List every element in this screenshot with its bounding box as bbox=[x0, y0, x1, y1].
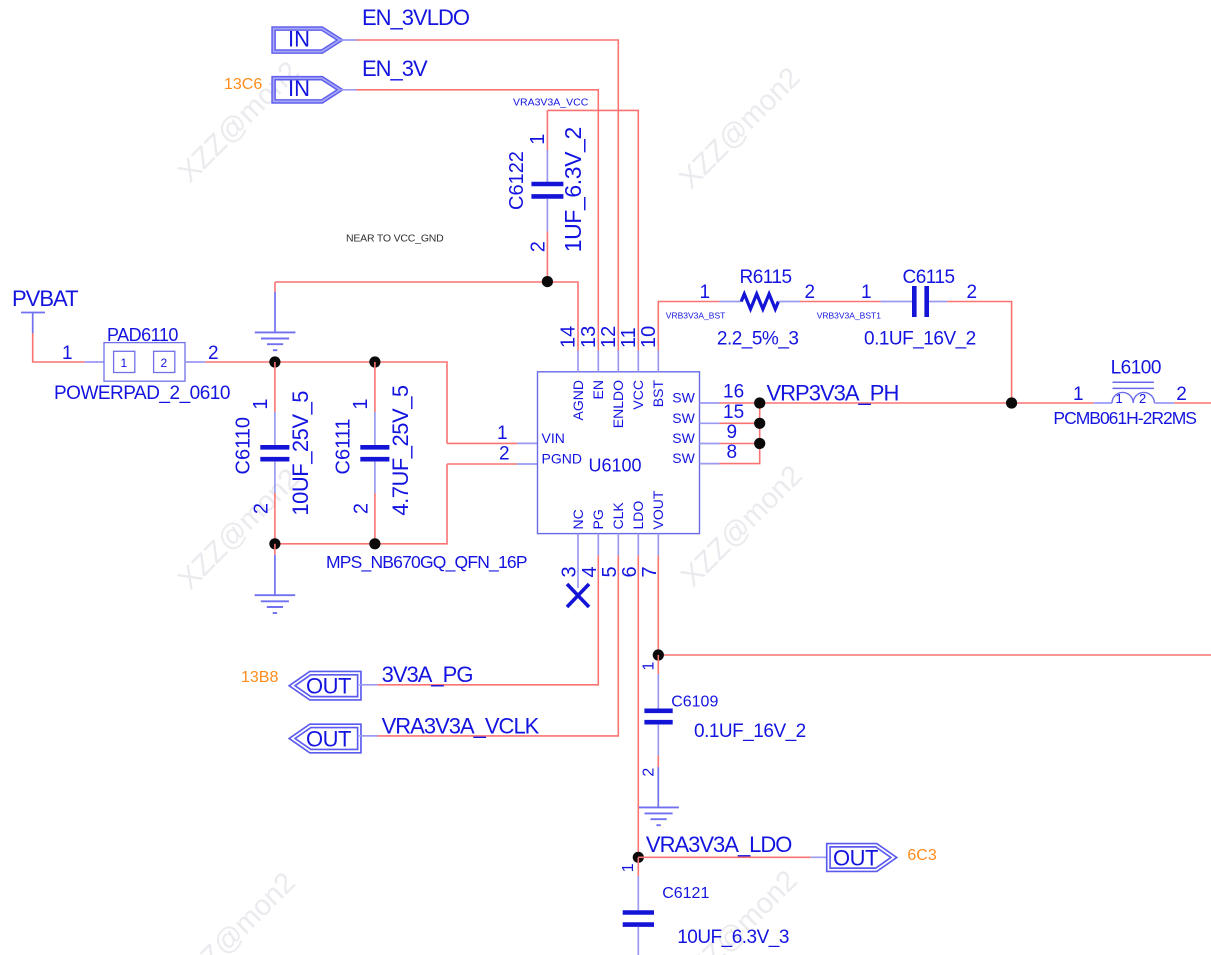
net label EN_3V bbox=[362, 56, 428, 81]
svg-text:6C3: 6C3 bbox=[907, 847, 936, 864]
wire SW15 bbox=[720, 422, 760, 424]
svg-text:VIN: VIN bbox=[542, 430, 565, 446]
value 4.7UF_25V_5 bbox=[388, 385, 413, 516]
svg-text:NC: NC bbox=[570, 509, 586, 529]
wire LDO stub flag bbox=[811, 856, 829, 858]
svg-text:PAD6110: PAD6110 bbox=[107, 325, 178, 345]
pin number 1 VIN bbox=[497, 423, 508, 444]
label MPS_NB670GQ_QFN_16P bbox=[326, 552, 527, 573]
pin name SW 9 bbox=[672, 430, 695, 446]
svg-text:MPS_NB670GQ_QFN_16P: MPS_NB670GQ_QFN_16P bbox=[326, 552, 527, 573]
sheet ref 13C6 bbox=[224, 76, 262, 93]
inductor L6100 bbox=[1094, 382, 1175, 403]
value 1UF_6.3V_2 bbox=[560, 127, 586, 252]
pin stub BST 10 bbox=[657, 351, 659, 372]
net label VRA3V3A_VCC bbox=[513, 97, 589, 109]
port IN flag EN_3VLDO bbox=[274, 27, 340, 52]
pin name VOUT bbox=[650, 490, 666, 529]
no-connect X NC bbox=[567, 584, 589, 607]
capacitor C6111 bbox=[360, 412, 389, 493]
capacitor C6110 bbox=[260, 412, 289, 493]
wire PVBAT to VIN bbox=[205, 362, 447, 443]
wire VRP3V3A_PH bbox=[720, 402, 1094, 404]
svg-text:SW: SW bbox=[672, 430, 695, 446]
pin number 2 C6111 bbox=[350, 503, 372, 514]
svg-text:SW: SW bbox=[672, 450, 695, 466]
svg-text:1: 1 bbox=[1073, 384, 1084, 405]
wire ground drop 2 bbox=[274, 544, 276, 595]
op-chip U6100 body bbox=[538, 372, 700, 534]
pin name AGND bbox=[570, 380, 586, 420]
wire PGND stub bbox=[447, 463, 538, 465]
pin number 4 bbox=[579, 566, 601, 577]
pin name PG bbox=[590, 509, 606, 529]
svg-text:SW: SW bbox=[672, 390, 695, 406]
svg-text:BST: BST bbox=[650, 380, 666, 408]
svg-text:11: 11 bbox=[618, 327, 640, 348]
sheet ref 6C3 bbox=[907, 847, 936, 864]
junction PVBAT-C6111 bbox=[369, 356, 380, 367]
wire BST to PH bbox=[947, 302, 1011, 404]
svg-text:VRB3V3A_BST: VRB3V3A_BST bbox=[666, 311, 726, 321]
pin stub ENLDO 12 bbox=[617, 351, 619, 372]
pin number 2 C6110 bbox=[250, 503, 272, 514]
wire PG net bbox=[377, 555, 598, 684]
label C6109 bbox=[671, 694, 718, 711]
junction SW9 bbox=[754, 438, 765, 449]
pad pin1 square number bbox=[121, 356, 128, 370]
svg-text:CLK: CLK bbox=[610, 502, 626, 530]
wire EN_3V stub bbox=[340, 89, 357, 91]
power tap PVBAT bbox=[21, 313, 45, 334]
svg-text:EN_3VLDO: EN_3VLDO bbox=[362, 5, 470, 30]
wire VOUT net bbox=[657, 555, 659, 655]
wire C6111 pin1 net bbox=[374, 362, 376, 412]
svg-text:2: 2 bbox=[528, 241, 550, 252]
svg-text:9: 9 bbox=[727, 422, 738, 443]
pin number 7 bbox=[639, 566, 661, 577]
pin 2 small L6100 bbox=[1139, 391, 1146, 406]
svg-text:EN_3V: EN_3V bbox=[362, 56, 428, 81]
value 0.1UF_16V_2 top bbox=[864, 329, 976, 350]
label U6100 bbox=[589, 456, 642, 476]
wire CLK net bbox=[377, 555, 618, 736]
junction LDO-C6121 bbox=[633, 852, 644, 863]
note NEAR TO VCC_GND bbox=[346, 233, 444, 245]
label C6122 bbox=[506, 151, 528, 210]
svg-text:ENLDO: ENLDO bbox=[610, 380, 626, 428]
pin stub CLK 5 bbox=[617, 534, 619, 556]
pin name BST bbox=[650, 380, 666, 408]
pin name SW 8 bbox=[672, 450, 695, 466]
pin name PGND bbox=[542, 451, 582, 467]
junction VOUT-C6109 bbox=[653, 649, 664, 660]
label PAD6110 bbox=[107, 325, 178, 345]
svg-text:VCC: VCC bbox=[630, 380, 646, 410]
net label 3V3A_PG bbox=[382, 662, 473, 687]
pin number 2 C6115 bbox=[967, 282, 978, 303]
pin stub AGND 14 bbox=[577, 351, 579, 372]
pin name LDO bbox=[630, 501, 646, 530]
pin number 15 bbox=[723, 402, 744, 423]
svg-text:2: 2 bbox=[161, 356, 168, 370]
svg-text:POWERPAD_2_0610: POWERPAD_2_0610 bbox=[54, 383, 230, 404]
svg-text:2: 2 bbox=[641, 768, 658, 777]
pin stub VOUT 7 bbox=[657, 534, 659, 556]
capacitor C6115 bbox=[881, 286, 948, 317]
svg-text:LDO: LDO bbox=[630, 501, 646, 530]
wire CLK stub bbox=[359, 735, 377, 737]
wire AGND net bbox=[275, 282, 578, 351]
pin name EN bbox=[590, 380, 606, 399]
pin number 2 C6109 bbox=[641, 768, 658, 777]
label R6115 bbox=[740, 267, 792, 288]
label C6110 bbox=[232, 417, 254, 474]
wire EN_3VLDO stub bbox=[340, 39, 357, 41]
svg-text:2: 2 bbox=[805, 282, 816, 303]
svg-text:13B8: 13B8 bbox=[241, 669, 278, 686]
pin number 10 bbox=[638, 326, 660, 348]
capacitor C6121 bbox=[623, 876, 654, 955]
wire PVBAT bbox=[33, 333, 85, 362]
wire LDO net bbox=[637, 555, 639, 857]
svg-text:2: 2 bbox=[208, 343, 219, 364]
svg-text:PCMB061H-2R2MS: PCMB061H-2R2MS bbox=[1053, 408, 1196, 428]
wire C6110 pin2 net bbox=[274, 493, 276, 544]
svg-text:2: 2 bbox=[499, 444, 510, 465]
svg-text:VRB3V3A_BST1: VRB3V3A_BST1 bbox=[817, 311, 882, 321]
svg-text:C6122: C6122 bbox=[506, 151, 528, 210]
value 0.1UF_16V_2 bottom bbox=[694, 721, 806, 742]
svg-text:3V3A_PG: 3V3A_PG bbox=[382, 662, 473, 687]
capacitor C6109 bbox=[644, 674, 672, 756]
pin 1 small L6100 bbox=[1116, 391, 1123, 406]
pin number 3 bbox=[559, 566, 581, 577]
svg-text:10UF_25V_5: 10UF_25V_5 bbox=[288, 391, 313, 516]
wire PH to edge bbox=[1174, 402, 1211, 404]
svg-text:1: 1 bbox=[350, 398, 372, 409]
pin number 2 C6122 bbox=[528, 241, 550, 252]
pin number 2 R6115 bbox=[805, 282, 816, 303]
port OUT flag VRA3V3A_LDO bbox=[828, 845, 893, 870]
value 10UF_25V_5 bbox=[288, 391, 313, 516]
svg-text:0.1UF_16V_2: 0.1UF_16V_2 bbox=[694, 721, 806, 742]
pin number 16 bbox=[723, 382, 744, 403]
svg-text:1: 1 bbox=[861, 282, 872, 303]
pin number 6 bbox=[619, 566, 641, 577]
svg-text:2: 2 bbox=[1139, 391, 1146, 406]
pin number 13 bbox=[578, 326, 600, 348]
wire VOUT to edge bbox=[658, 654, 1211, 656]
net label VRB3V3A_BST bbox=[666, 311, 726, 321]
svg-text:2.2_5%_3: 2.2_5%_3 bbox=[717, 329, 799, 350]
svg-text:VRP3V3A_PH: VRP3V3A_PH bbox=[767, 381, 899, 406]
svg-text:PVBAT: PVBAT bbox=[12, 286, 78, 311]
pin number 5 bbox=[599, 566, 621, 577]
pin number 1 C6115 bbox=[861, 282, 872, 303]
pin stub SW 9 bbox=[700, 443, 720, 445]
net label VRP3V3A_PH bbox=[767, 381, 899, 406]
svg-text:AGND: AGND bbox=[570, 380, 586, 420]
label C6111 bbox=[332, 419, 354, 475]
label POWERPAD_2_0610 bbox=[54, 383, 230, 404]
pin stub PG 4 bbox=[597, 534, 599, 556]
svg-text:VOUT: VOUT bbox=[650, 490, 666, 529]
svg-text:15: 15 bbox=[723, 402, 744, 423]
pin name ENLDO bbox=[610, 380, 626, 428]
resistor R6115 bbox=[719, 294, 800, 309]
pad PAD6110 bbox=[104, 343, 185, 382]
svg-text:PG: PG bbox=[590, 509, 606, 529]
wire PG stub bbox=[359, 684, 377, 686]
wire BST mid bbox=[800, 301, 881, 303]
wire EN_3VLDO bbox=[357, 40, 619, 351]
ground symbol C6109 bbox=[638, 807, 679, 825]
junction SW16 bbox=[754, 397, 765, 408]
svg-text:3: 3 bbox=[559, 566, 581, 577]
junction SW15 bbox=[754, 418, 765, 429]
wire EN_3V bbox=[357, 90, 599, 351]
label C6115 bbox=[903, 267, 955, 288]
svg-text:10UF_6.3V_3: 10UF_6.3V_3 bbox=[677, 927, 789, 948]
wire VIN stub bbox=[447, 442, 538, 444]
svg-text:1: 1 bbox=[641, 662, 658, 671]
svg-text:14: 14 bbox=[558, 326, 580, 348]
pin stub SW 8 bbox=[700, 463, 720, 465]
wire ground drop bbox=[274, 282, 276, 332]
net label PVBAT bbox=[12, 286, 78, 311]
wire C6109 pin1 bbox=[657, 655, 659, 674]
svg-text:2: 2 bbox=[250, 503, 272, 514]
sheet ref 13B8 bbox=[241, 669, 278, 686]
pin number 2 PGND bbox=[499, 444, 510, 465]
pin stub LDO 6 bbox=[637, 534, 639, 556]
pin number 1 C6121 bbox=[620, 863, 637, 872]
pin stub SW 16 bbox=[700, 402, 720, 404]
pin name SW 15 bbox=[672, 410, 695, 426]
label PCMB061H-2R2MS bbox=[1053, 408, 1196, 428]
junction C6122-AGND bbox=[542, 276, 553, 287]
pin name VIN bbox=[542, 430, 565, 446]
net label VRB3V3A_BST1 bbox=[817, 311, 882, 321]
svg-text:13: 13 bbox=[578, 326, 600, 348]
svg-text:C6111: C6111 bbox=[332, 419, 354, 475]
svg-text:0.1UF_16V_2: 0.1UF_16V_2 bbox=[864, 329, 976, 350]
svg-text:1: 1 bbox=[497, 423, 508, 444]
svg-text:4.7UF_25V_5: 4.7UF_25V_5 bbox=[388, 385, 413, 516]
port OUT flag 3V3A_PG bbox=[292, 673, 359, 698]
wire PGND bottom bbox=[275, 464, 447, 544]
port IN flag EN_3V bbox=[274, 76, 340, 101]
svg-text:C6115: C6115 bbox=[903, 267, 955, 288]
svg-text:1: 1 bbox=[620, 863, 637, 872]
pin number 2 PAD6110 bbox=[208, 343, 219, 364]
junction BST cap bbox=[1006, 397, 1017, 408]
value 10UF_6.3V_3 bbox=[677, 927, 789, 948]
svg-text:OUT: OUT bbox=[306, 674, 351, 699]
svg-text:1: 1 bbox=[700, 282, 711, 303]
pad PAD6110 pin2 stub bbox=[185, 361, 205, 363]
wire C6122 pin2 net bbox=[546, 231, 548, 281]
pin number 1 C6111 bbox=[350, 398, 372, 409]
svg-text:R6115: R6115 bbox=[740, 267, 792, 288]
svg-text:13C6: 13C6 bbox=[224, 76, 262, 93]
svg-text:U6100: U6100 bbox=[589, 456, 642, 476]
pin stub NC 3 bbox=[577, 534, 579, 588]
label L6100 bbox=[1111, 357, 1161, 378]
pin number 1 R6115 bbox=[700, 282, 711, 303]
ground symbol top bbox=[255, 332, 296, 350]
pin name VCC bbox=[630, 380, 646, 410]
net label EN_3VLDO bbox=[362, 5, 470, 30]
svg-text:NEAR TO VCC_GND: NEAR TO VCC_GND bbox=[346, 233, 444, 245]
svg-text:12: 12 bbox=[598, 326, 620, 348]
svg-text:1: 1 bbox=[527, 134, 549, 145]
pin number 1 C6109 bbox=[641, 662, 658, 671]
svg-text:8: 8 bbox=[727, 442, 738, 463]
svg-text:2: 2 bbox=[350, 503, 372, 514]
junction C6111-gnd bbox=[369, 538, 380, 549]
svg-text:1: 1 bbox=[62, 343, 73, 364]
svg-text:IN: IN bbox=[288, 76, 310, 101]
svg-text:16: 16 bbox=[723, 382, 744, 403]
pin stub VCC 11 bbox=[637, 351, 639, 372]
svg-text:C6121: C6121 bbox=[662, 885, 709, 902]
svg-text:1UF_6.3V_2: 1UF_6.3V_2 bbox=[560, 127, 586, 252]
pin name CLK bbox=[610, 502, 626, 530]
value 2.2_5%_3 bbox=[717, 329, 799, 350]
net label VRA3V3A_VCLK bbox=[382, 713, 540, 738]
svg-text:L6100: L6100 bbox=[1111, 357, 1161, 378]
wire C6109 pin2 bbox=[657, 756, 659, 808]
svg-text:OUT: OUT bbox=[306, 726, 351, 751]
pad pin2 square number bbox=[161, 356, 168, 370]
pin name NC bbox=[570, 509, 586, 529]
pin number 12 bbox=[598, 326, 620, 348]
pin number 1 PAD6110 bbox=[62, 343, 73, 364]
pin number 1 C6110 bbox=[250, 398, 272, 409]
label C6121 bbox=[662, 885, 709, 902]
pin number 1 L6100 bbox=[1073, 384, 1084, 405]
pin stub SW 15 bbox=[700, 422, 720, 424]
wire C6110 pin1 net bbox=[274, 362, 276, 412]
pin name SW 16 bbox=[672, 390, 695, 406]
svg-text:PGND: PGND bbox=[542, 451, 582, 467]
svg-text:2: 2 bbox=[967, 282, 978, 303]
net label VRA3V3A_LDO bbox=[646, 832, 792, 857]
wire VRA3V3A_LDO bbox=[638, 856, 810, 858]
svg-text:IN: IN bbox=[288, 27, 310, 52]
svg-text:VRA3V3A_VCC: VRA3V3A_VCC bbox=[513, 97, 589, 109]
svg-text:SW: SW bbox=[672, 410, 695, 426]
svg-text:C6110: C6110 bbox=[232, 417, 254, 474]
pad PAD6110 pin1 stub bbox=[85, 361, 105, 363]
pin number 14 bbox=[558, 326, 580, 348]
svg-text:VRA3V3A_VCLK: VRA3V3A_VCLK bbox=[382, 713, 540, 738]
junction C6110-gnd bbox=[269, 538, 280, 549]
wire C6111 pin2 net bbox=[374, 493, 376, 544]
pin number 2 L6100 bbox=[1176, 384, 1187, 405]
pin stub EN 13 bbox=[597, 351, 599, 372]
svg-text:1: 1 bbox=[121, 356, 128, 370]
svg-text:2: 2 bbox=[1176, 384, 1187, 405]
svg-text:EN: EN bbox=[590, 380, 606, 399]
wire SW9 bbox=[720, 443, 760, 445]
svg-text:1: 1 bbox=[1116, 391, 1123, 406]
svg-text:OUT: OUT bbox=[833, 845, 878, 870]
ground symbol bottom left bbox=[255, 595, 296, 613]
svg-text:VRA3V3A_LDO: VRA3V3A_LDO bbox=[646, 832, 792, 857]
junction PVBAT-C6110 bbox=[269, 356, 280, 367]
capacitor C6122 bbox=[531, 150, 563, 231]
wire C6122 pin1 net bbox=[546, 110, 548, 150]
svg-text:C6109: C6109 bbox=[671, 694, 718, 711]
wire C6121 pin1 bbox=[637, 857, 639, 876]
wire VRA3V3A_VCC bbox=[547, 110, 638, 350]
port OUT flag VRA3V3A_VCLK bbox=[292, 726, 359, 751]
wire BST net bbox=[658, 302, 719, 351]
pin number 1 C6122 bbox=[527, 134, 549, 145]
svg-text:10: 10 bbox=[638, 326, 660, 348]
svg-text:1: 1 bbox=[250, 398, 272, 409]
wire SW8 bbox=[720, 403, 760, 464]
pin number 11 bbox=[618, 327, 640, 348]
pin number 9 bbox=[727, 422, 738, 443]
pin number 8 bbox=[727, 442, 738, 463]
